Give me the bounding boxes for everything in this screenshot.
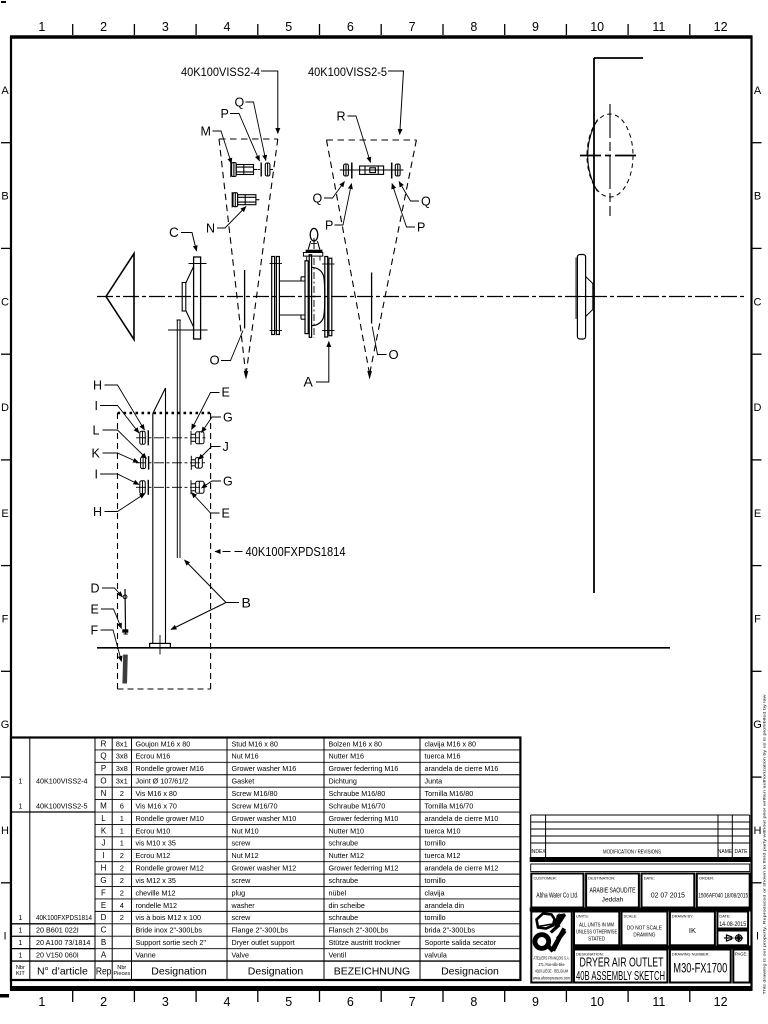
support B detail dotted top line <box>118 412 211 415</box>
svg-text:Ecrou M12: Ecrou M12 <box>136 851 171 860</box>
svg-text:I: I <box>102 851 104 860</box>
svg-text:8: 8 <box>470 20 477 34</box>
svg-text:40K100FXPDS1814: 40K100FXPDS1814 <box>36 913 92 922</box>
svg-text:H: H <box>754 825 762 837</box>
svg-text:9: 9 <box>532 20 539 34</box>
svg-text:7: 7 <box>409 20 416 34</box>
svg-text:Vis M16 x 70: Vis M16 x 70 <box>136 801 177 810</box>
svg-text:screw: screw <box>232 913 252 922</box>
svg-text:10: 10 <box>590 20 604 34</box>
corner print marks <box>0 994 9 998</box>
grid column ticks <box>73 24 690 1002</box>
wall flange plate <box>577 255 585 340</box>
svg-text:1: 1 <box>18 777 22 786</box>
svg-text:DRAWING: DRAWING <box>633 933 655 939</box>
svg-text:4020 LIÈGE - BELGIUM: 4020 LIÈGE - BELGIUM <box>535 969 568 974</box>
svg-text:arandela din: arandela din <box>425 901 465 910</box>
svg-text:C: C <box>754 296 762 308</box>
svg-text:1: 1 <box>18 913 22 922</box>
main pipe centerline <box>97 296 745 298</box>
svg-text:1: 1 <box>18 938 22 947</box>
svg-text:tornillo: tornillo <box>425 876 446 885</box>
svg-text:2: 2 <box>120 789 124 798</box>
svg-text:1: 1 <box>18 951 22 960</box>
support tube (side view behind flange) <box>177 320 181 558</box>
svg-text:Ecrou M10: Ecrou M10 <box>136 826 171 835</box>
units box <box>574 912 619 946</box>
svg-text:E: E <box>101 901 106 910</box>
svg-text:Screw M16/70: Screw M16/70 <box>232 801 278 810</box>
svg-text:Designation: Designation <box>248 965 304 977</box>
grid row ticks <box>1 143 762 883</box>
svg-text:Grower washer M10: Grower washer M10 <box>232 814 297 823</box>
svg-text:11: 11 <box>652 20 665 34</box>
valve handwheel knob <box>310 228 318 241</box>
svg-text:Grower federring M16: Grower federring M16 <box>329 764 399 773</box>
svg-text:E: E <box>754 508 761 520</box>
svg-text:1: 1 <box>18 926 22 935</box>
svg-text:din scheibe: din scheibe <box>329 901 365 910</box>
washer H (bottom row) <box>147 480 149 495</box>
wall hole crosshair <box>580 155 638 157</box>
svg-text:DATE:: DATE: <box>719 914 730 919</box>
valve spool neck <box>279 277 305 319</box>
svg-text:nübel: nübel <box>329 888 347 897</box>
svg-text:clavija M16 x 80: clavija M16 x 80 <box>425 739 477 748</box>
flange C hub cone <box>182 267 193 328</box>
svg-text:NAME: NAME <box>718 849 733 855</box>
drawn-by box <box>670 912 715 946</box>
svg-text:A: A <box>101 951 107 960</box>
svg-text:E: E <box>1 508 8 520</box>
valve bonnet plate <box>303 253 322 257</box>
logo box <box>531 912 572 983</box>
svg-text:ATELIERS FRANÇOIS S.A.: ATELIERS FRANÇOIS S.A. <box>534 956 570 961</box>
svg-text:Flange 2"-300Lbs: Flange 2"-300Lbs <box>232 926 289 935</box>
svg-text:brida 2"-300Lbs: brida 2"-300Lbs <box>425 926 476 935</box>
stud R nut left <box>344 164 349 176</box>
svg-text:screw: screw <box>232 876 252 885</box>
svg-text:Q: Q <box>313 192 323 206</box>
svg-text:schraube: schraube <box>329 913 359 922</box>
svg-text:G: G <box>223 475 233 489</box>
parts table data text <box>100 739 498 959</box>
svg-text:40K100VISS2-4: 40K100VISS2-4 <box>181 67 261 79</box>
svg-text:Q: Q <box>421 195 431 209</box>
svg-text:Pieces: Pieces <box>113 971 130 977</box>
black separator bar <box>530 908 751 912</box>
black separator bar 2 <box>573 946 751 950</box>
svg-text:4: 4 <box>224 995 231 1009</box>
svg-text:B: B <box>754 191 761 203</box>
svg-text:DO NOT SCALE: DO NOT SCALE <box>627 926 662 932</box>
washer P detail <box>260 163 262 177</box>
svg-text:O: O <box>389 347 399 362</box>
svg-text:Nutter M12: Nutter M12 <box>329 851 365 860</box>
svg-text:Vanne: Vanne <box>136 951 156 960</box>
bolt row axes <box>136 438 207 488</box>
projection funnel VISS2-5 (dashed) <box>327 140 417 371</box>
svg-text:H: H <box>1 825 9 837</box>
svg-text:Joint Ø 107/61/2: Joint Ø 107/61/2 <box>136 777 189 786</box>
svg-text:P: P <box>101 764 106 773</box>
svg-text:40B ASSEMBLY SKETCH: 40B ASSEMBLY SKETCH <box>576 969 665 983</box>
customer band boxes <box>531 874 749 908</box>
svg-text:screw: screw <box>232 839 252 848</box>
svg-text:2: 2 <box>120 888 124 897</box>
svg-text:P: P <box>221 107 229 121</box>
svg-text:R: R <box>101 739 107 748</box>
svg-text:P: P <box>325 219 333 233</box>
svg-text:tornillo: tornillo <box>425 913 446 922</box>
svg-text:2: 2 <box>100 995 107 1009</box>
nut I (top row) <box>140 431 145 444</box>
svg-text:Flansch 2"-300Lbs: Flansch 2"-300Lbs <box>329 926 389 935</box>
svg-text:Q: Q <box>235 96 245 110</box>
svg-text:I: I <box>95 399 98 413</box>
svg-text:O: O <box>100 777 106 786</box>
pipe flange pair left of valve <box>272 257 280 335</box>
svg-text:11: 11 <box>652 995 665 1009</box>
svg-text:A: A <box>304 374 314 390</box>
svg-text:PAGE:: PAGE: <box>735 952 748 957</box>
svg-text:Schraube M16/80: Schraube M16/80 <box>329 789 386 798</box>
svg-text:STATED: STATED <box>588 937 605 943</box>
svg-text:Soporte salida secator: Soporte salida secator <box>425 938 497 947</box>
svg-text:Goujon M16 x 80: Goujon M16 x 80 <box>136 739 191 748</box>
ground line <box>97 647 670 649</box>
svg-text:R: R <box>337 110 346 124</box>
svg-text:Q: Q <box>100 752 106 761</box>
valve bonnet cone <box>308 241 320 250</box>
svg-text:tuerca M16: tuerca M16 <box>425 752 461 761</box>
svg-text:D: D <box>1 402 9 414</box>
projection symbol box <box>717 931 748 946</box>
svg-text:M: M <box>100 801 107 810</box>
svg-text:Grower federring M10: Grower federring M10 <box>329 814 399 823</box>
valve A dome body <box>312 267 325 325</box>
svg-text:I: I <box>3 931 6 943</box>
designation box <box>574 950 667 983</box>
svg-text:BEZEICHNUNG: BEZEICHNUNG <box>334 965 410 977</box>
svg-text:E: E <box>222 507 230 521</box>
svg-text:Bolzen M16 x 80: Bolzen M16 x 80 <box>329 739 383 748</box>
svg-text:B: B <box>101 938 106 947</box>
svg-text:Tornilla M16/70: Tornilla M16/70 <box>425 801 474 810</box>
svg-text:1506AF040 18/08/2015: 1506AF040 18/08/2015 <box>698 893 748 900</box>
stud R nut right <box>395 164 400 176</box>
parts table kit article numbers <box>18 777 92 960</box>
svg-text:Tornilla M16/80: Tornilla M16/80 <box>425 789 474 798</box>
svg-text:5: 5 <box>285 20 292 34</box>
svg-text:2: 2 <box>120 851 124 860</box>
svg-text:Schraube M16/70: Schraube M16/70 <box>329 801 386 810</box>
svg-text:3: 3 <box>162 995 169 1009</box>
svg-text:ALL UNITS IN MM: ALL UNITS IN MM <box>579 923 614 929</box>
svg-text:UNLESS OTHERWISE: UNLESS OTHERWISE <box>576 930 617 936</box>
svg-text:02 07 2015: 02 07 2015 <box>651 891 685 900</box>
revision table bottom bar <box>530 857 751 862</box>
wall penetration dashed circle (hole) <box>587 114 633 197</box>
svg-text:Bride inox 2"-300Lbs: Bride inox 2"-300Lbs <box>136 926 203 935</box>
svg-text:B: B <box>242 595 251 611</box>
svg-text:ORDER:: ORDER: <box>699 876 714 881</box>
svg-text:40K100VISS2-4: 40K100VISS2-4 <box>36 777 88 786</box>
svg-text:Screw M16/80: Screw M16/80 <box>232 789 278 798</box>
parts table row lines <box>95 750 520 949</box>
svg-text:K: K <box>101 826 107 835</box>
svg-text:40K100VISS2-5: 40K100VISS2-5 <box>308 67 387 79</box>
support B detail dashed box <box>118 413 211 689</box>
svg-text:arandela de cierre M10: arandela de cierre M10 <box>425 814 499 823</box>
svg-text:DRAWING NUMBER:: DRAWING NUMBER: <box>672 952 710 957</box>
svg-text:1: 1 <box>120 826 124 835</box>
svg-text:Abha Water Co Ltd.: Abha Water Co Ltd. <box>536 893 578 900</box>
svg-text:H: H <box>101 864 107 873</box>
parts list table outline <box>11 738 520 981</box>
valve A stem centerline <box>313 258 315 338</box>
wall outline right <box>594 58 643 593</box>
support B base plate <box>150 643 171 647</box>
svg-text:Nutter M16: Nutter M16 <box>329 752 365 761</box>
bolt N (Vis M16x70) <box>232 192 259 207</box>
svg-text:plug: plug <box>232 888 246 897</box>
svg-text:12: 12 <box>714 995 728 1009</box>
svg-text:IK: IK <box>689 926 696 935</box>
svg-text:tornillo: tornillo <box>425 839 446 848</box>
svg-text:271, Rue-ville-Bèe: 271, Rue-ville-Bèe <box>539 962 565 967</box>
svg-text:arandela de cierre M12: arandela de cierre M12 <box>425 864 499 873</box>
valve stem cross <box>313 238 315 249</box>
svg-text:DRYER AIR OUTLET: DRYER AIR OUTLET <box>580 956 664 970</box>
scale box <box>622 912 668 946</box>
svg-text:F: F <box>101 888 106 897</box>
svg-text:4: 4 <box>224 20 231 34</box>
svg-text:2: 2 <box>120 876 124 885</box>
svg-text:valvula: valvula <box>425 951 447 960</box>
valve A body left flange plates <box>305 255 312 337</box>
svg-text:Support sortie sech 2": Support sortie sech 2" <box>136 938 207 947</box>
svg-text:J: J <box>102 839 106 848</box>
svg-text:Grower washer M12: Grower washer M12 <box>232 864 297 873</box>
svg-text:Dryer outlet support: Dryer outlet support <box>232 938 295 947</box>
svg-text:C: C <box>1 296 9 308</box>
svg-text:3: 3 <box>162 20 169 34</box>
svg-text:DATE:: DATE: <box>644 876 655 881</box>
svg-text:1: 1 <box>38 995 45 1009</box>
svg-text:E: E <box>222 386 230 400</box>
bolt G with washer E (bottom row) <box>191 480 204 494</box>
svg-text:8x1: 8x1 <box>116 739 128 748</box>
projection symbol <box>724 934 743 942</box>
svg-text:Grower federring M12: Grower federring M12 <box>329 864 399 873</box>
svg-text:J: J <box>223 440 229 454</box>
svg-text:10: 10 <box>590 995 604 1009</box>
svg-text:20 V150 060I: 20 V150 060I <box>36 951 79 960</box>
svg-text:clavija: clavija <box>425 888 445 897</box>
washer L (middle row) <box>148 456 150 470</box>
svg-text:Vis M16 x 80: Vis M16 x 80 <box>136 789 177 798</box>
svg-text:KIT: KIT <box>16 971 25 977</box>
svg-text:14-08-2015: 14-08-2015 <box>719 921 746 928</box>
svg-text:Rep: Rep <box>96 966 112 977</box>
svg-text:C: C <box>169 225 179 240</box>
svg-text:N° d’article: N° d’article <box>37 965 88 977</box>
valve A right flange plates <box>325 257 332 338</box>
date small box <box>717 912 748 929</box>
svg-text:H: H <box>93 379 102 393</box>
svg-text:20 B601 022I: 20 B601 022I <box>36 926 79 935</box>
gasket O left (at flange C joint) <box>244 270 246 329</box>
support B plate (front) <box>153 388 166 643</box>
svg-text:3x1: 3x1 <box>116 777 128 786</box>
svg-text:vis M12 x 35: vis M12 x 35 <box>136 876 176 885</box>
svg-text:vis à bois M12 x 100: vis à bois M12 x 100 <box>136 913 202 922</box>
svg-text:vis M10 x 35: vis M10 x 35 <box>136 839 176 848</box>
bolt M (Vis M16x80) <box>231 162 257 177</box>
svg-text:C: C <box>101 926 107 935</box>
svg-text:8: 8 <box>470 995 477 1009</box>
svg-text:DRAWN BY:: DRAWN BY: <box>672 914 694 919</box>
svg-text:1: 1 <box>38 20 45 34</box>
svg-text:UNITS:: UNITS: <box>576 914 589 919</box>
svg-text:This drawing is our property.: This drawing is our property. Reproduced… <box>763 694 767 994</box>
svg-text:DESTINATION:: DESTINATION: <box>588 876 615 881</box>
svg-text:2: 2 <box>120 864 124 873</box>
svg-text:D: D <box>91 582 100 596</box>
svg-text:MODIFICATION / REVISIONS: MODIFICATION / REVISIONS <box>603 850 661 856</box>
svg-text:Gasket: Gasket <box>232 777 255 786</box>
svg-text:F: F <box>754 614 761 626</box>
svg-text:tuerca M12: tuerca M12 <box>425 851 461 860</box>
svg-text:rondelle M12: rondelle M12 <box>136 901 178 910</box>
svg-text:5: 5 <box>285 995 292 1009</box>
svg-text:washer: washer <box>231 901 256 910</box>
bolt J with washer (middle row) <box>191 456 202 470</box>
svg-text:Stütze austritt trockner: Stütze austritt trockner <box>329 938 402 947</box>
svg-text:DATE: DATE <box>735 849 749 855</box>
svg-text:ARABIE SAOUDITE: ARABIE SAOUDITE <box>590 886 636 895</box>
svg-text:Nut M16: Nut M16 <box>232 752 259 761</box>
projection funnel VISS2-4 (dashed) <box>219 139 278 371</box>
svg-text:6: 6 <box>347 995 354 1009</box>
svg-text:E: E <box>91 603 99 617</box>
svg-text:tuerca M10: tuerca M10 <box>425 826 461 835</box>
svg-text:INDEX: INDEX <box>530 849 546 855</box>
svg-text:Nut M10: Nut M10 <box>232 826 259 835</box>
svg-text:M: M <box>201 125 211 139</box>
svg-text:1: 1 <box>120 814 124 823</box>
stud R assembly axis <box>340 169 404 171</box>
flow direction cone (left arrow) <box>106 254 134 340</box>
svg-text:Rondelle grower M10: Rondelle grower M10 <box>136 814 204 823</box>
svg-text:Ecrou M16: Ecrou M16 <box>136 752 171 761</box>
svg-text:D: D <box>754 402 762 414</box>
svg-text:Junta: Junta <box>425 777 443 786</box>
svg-text:7: 7 <box>409 995 416 1009</box>
svg-text:N: N <box>206 222 215 236</box>
gasket O right <box>371 273 373 324</box>
svg-text:L: L <box>101 814 106 823</box>
svg-text:A: A <box>1 85 9 97</box>
svg-text:Stud M16 x 80: Stud M16 x 80 <box>232 739 278 748</box>
svg-text:6: 6 <box>347 20 354 34</box>
svg-text:3x8: 3x8 <box>116 764 128 773</box>
svg-text:Designation: Designation <box>151 965 207 977</box>
svg-text:G: G <box>753 719 762 731</box>
svg-text:I: I <box>95 468 98 482</box>
svg-text:2: 2 <box>120 913 124 922</box>
svg-text:www.afcompressors.com: www.afcompressors.com <box>533 976 570 981</box>
svg-text:20 A100 73/1814: 20 A100 73/1814 <box>36 938 90 947</box>
nut Q detail <box>265 163 273 176</box>
svg-text:Designacion: Designacion <box>441 965 499 977</box>
nut I (bottom row) <box>140 481 145 494</box>
spacer strip <box>531 864 750 872</box>
svg-text:CUSTOMER:: CUSTOMER: <box>534 876 557 881</box>
svg-text:Grower washer M16: Grower washer M16 <box>232 764 297 773</box>
svg-text:12: 12 <box>714 20 728 34</box>
revision table <box>531 815 750 857</box>
washer E under anchor <box>122 629 128 632</box>
anchor screw D (vis a bois) <box>124 589 127 635</box>
flange C bolt circle ticks <box>189 263 207 265</box>
valve packing gland (black band) <box>306 250 323 253</box>
stud R washer left <box>351 163 353 179</box>
svg-text:G: G <box>1 719 10 731</box>
svg-text:schraube: schraube <box>329 876 359 885</box>
svg-text:Rondelle grower M12: Rondelle grower M12 <box>136 864 204 873</box>
svg-text:Rondelle grower M16: Rondelle grower M16 <box>136 764 204 773</box>
page box <box>733 950 749 983</box>
svg-text:1: 1 <box>120 839 124 848</box>
svg-text:M30-FX1700: M30-FX1700 <box>673 961 727 976</box>
stud R washer right <box>391 163 393 179</box>
svg-text:9: 9 <box>532 995 539 1009</box>
nut K (middle row) <box>141 457 146 469</box>
AF logo glyph <box>535 913 567 953</box>
svg-text:G: G <box>100 876 106 885</box>
svg-text:H: H <box>93 505 102 519</box>
svg-text:SCALE:: SCALE: <box>624 914 638 919</box>
svg-text:2: 2 <box>100 20 107 34</box>
svg-text:P: P <box>417 221 425 235</box>
svg-text:Nutter M10: Nutter M10 <box>329 826 365 835</box>
svg-text:schraube: schraube <box>329 839 359 848</box>
svg-text:Nut M12: Nut M12 <box>232 851 259 860</box>
svg-text:O: O <box>210 353 220 368</box>
wall hole solid arc <box>588 120 598 192</box>
svg-text:I: I <box>756 931 759 943</box>
svg-text:40K100FXPDS1814: 40K100FXPDS1814 <box>246 545 346 559</box>
svg-text:G: G <box>223 411 233 425</box>
svg-text:arandela de cierre M16: arandela de cierre M16 <box>425 764 499 773</box>
drawing number box <box>670 950 731 983</box>
svg-text:D: D <box>101 913 107 922</box>
wall flange hub cone <box>586 277 593 317</box>
svg-text:Ventil: Ventil <box>329 951 347 960</box>
svg-text:A: A <box>754 85 762 97</box>
svg-text:cheville M12: cheville M12 <box>136 888 176 897</box>
svg-text:Dichtung: Dichtung <box>329 777 357 786</box>
svg-text:4: 4 <box>120 901 124 910</box>
svg-text:Valve: Valve <box>232 951 249 960</box>
svg-text:L: L <box>93 424 100 438</box>
svg-text:3x8: 3x8 <box>116 752 128 761</box>
stud R body <box>360 166 384 174</box>
svg-text:B: B <box>1 191 8 203</box>
washer H (top row) <box>147 430 149 445</box>
